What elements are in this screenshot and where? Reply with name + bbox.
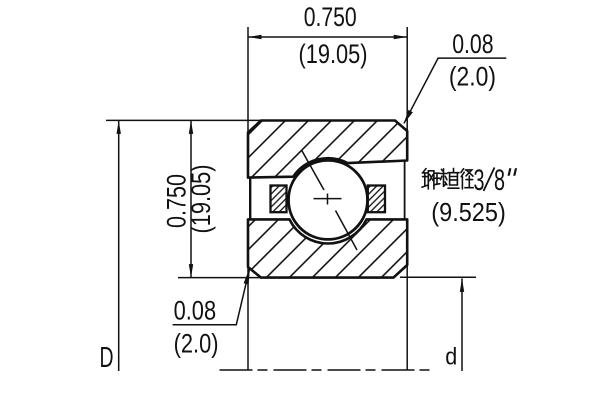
- svg-text:0.750: 0.750: [304, 2, 357, 32]
- svg-text:(9.525): (9.525): [431, 197, 506, 227]
- svg-text:(2.0): (2.0): [174, 329, 219, 359]
- svg-text:0.08: 0.08: [174, 295, 217, 325]
- svg-text:(2.0): (2.0): [449, 62, 496, 92]
- svg-text:(19.05): (19.05): [186, 165, 216, 234]
- svg-text:(19.05): (19.05): [299, 39, 368, 69]
- svg-text:3: 3: [474, 164, 485, 197]
- svg-text:8: 8: [494, 164, 505, 197]
- svg-text:0.08: 0.08: [452, 29, 493, 59]
- svg-text:D: D: [100, 342, 114, 374]
- svg-text:d: d: [445, 342, 457, 370]
